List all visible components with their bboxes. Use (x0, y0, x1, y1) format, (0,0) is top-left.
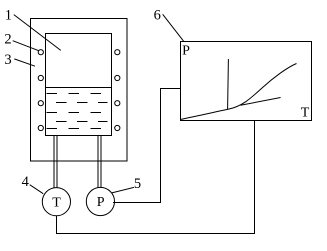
svg-text:6: 6 (154, 8, 161, 24)
svg-text:5: 5 (134, 176, 141, 192)
svg-text:1: 1 (5, 8, 12, 24)
svg-text:2: 2 (4, 31, 11, 47)
svg-text:T: T (301, 105, 310, 120)
svg-text:P: P (182, 44, 190, 59)
svg-text:T: T (52, 195, 61, 210)
svg-text:P: P (97, 195, 105, 210)
svg-text:3: 3 (4, 52, 11, 68)
svg-text:4: 4 (22, 174, 30, 190)
